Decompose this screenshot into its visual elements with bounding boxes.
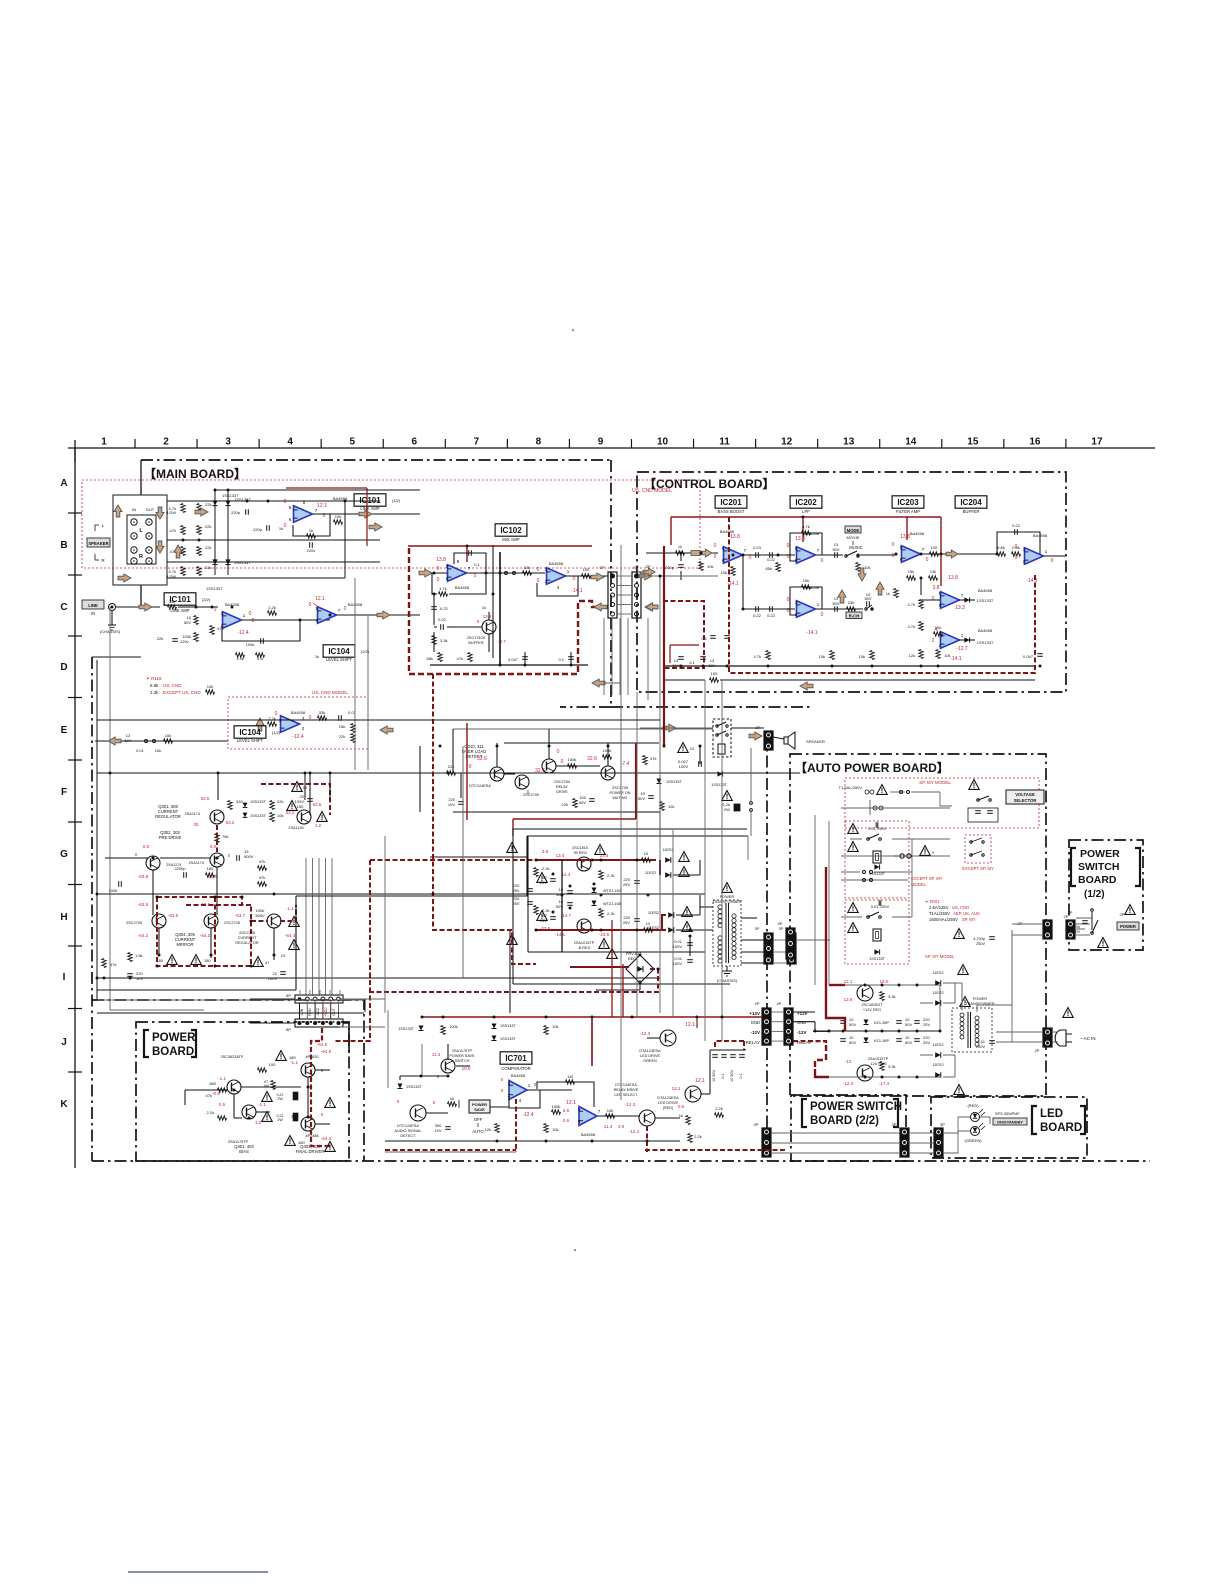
label bbox=[672, 658, 715, 668]
voltage bbox=[1015, 544, 1054, 584]
voltage bbox=[193, 796, 234, 827]
label LPF bbox=[802, 509, 810, 514]
wire bbox=[68, 697, 82, 699]
wire bbox=[178, 606, 218, 608]
resistor 23k bbox=[847, 600, 856, 611]
wire bbox=[527, 1089, 572, 1091]
red wire bbox=[906, 517, 908, 540]
US CND MODEL region 2 bbox=[228, 697, 368, 749]
signal bus bbox=[216, 825, 218, 852]
voltage bbox=[787, 597, 824, 636]
svg-text:13.0: 13.0 bbox=[556, 853, 565, 858]
svg-text:13.8: 13.8 bbox=[948, 575, 958, 581]
svg-text:RELAY DRIVE: RELAY DRIVE bbox=[614, 1088, 639, 1092]
svg-text:11ES2: 11ES2 bbox=[932, 991, 943, 995]
diode 1SS133T bbox=[869, 949, 886, 961]
voltage bbox=[255, 1102, 267, 1125]
wire bbox=[420, 572, 447, 574]
svg-text:E: E bbox=[61, 725, 68, 736]
CONTROL BOARD frame bbox=[637, 472, 1066, 692]
svg-text:BA4558: BA4558 bbox=[910, 531, 925, 536]
transistor audio detect bbox=[410, 1105, 426, 1121]
voltage bbox=[844, 979, 889, 1002]
wire bbox=[528, 835, 697, 837]
ferrite bbox=[691, 551, 700, 556]
svg-text:2.2k: 2.2k bbox=[150, 690, 159, 695]
svg-text:500V: 500V bbox=[255, 913, 265, 918]
svg-text:0: 0 bbox=[474, 573, 477, 579]
svg-text:2W: 2W bbox=[277, 1118, 283, 1122]
label 2SC3623ATP bbox=[221, 1055, 244, 1059]
voltage bbox=[714, 534, 752, 587]
label 2.2k bbox=[715, 1106, 724, 1117]
node F bbox=[61, 787, 67, 798]
label 2SC2764 bbox=[554, 780, 570, 794]
wire bbox=[943, 1131, 970, 1153]
svg-text:100V: 100V bbox=[673, 944, 683, 949]
transistor Q402 bbox=[242, 1105, 256, 1119]
connector 8P bbox=[295, 1019, 343, 1027]
label 8P bbox=[286, 993, 291, 1032]
resistor bbox=[256, 653, 265, 657]
svg-text:10: 10 bbox=[690, 746, 695, 751]
connector 5P bbox=[608, 572, 617, 618]
svg-text:3.8: 3.8 bbox=[933, 585, 940, 591]
bus bbox=[619, 618, 621, 695]
resistor 10k bbox=[164, 733, 173, 743]
wire bbox=[339, 998, 385, 1000]
signal bus bbox=[186, 904, 251, 906]
svg-text:R-CH: R-CH bbox=[849, 614, 859, 619]
wire bbox=[167, 500, 380, 502]
wire bbox=[943, 1117, 970, 1133]
svg-text:0: 0 bbox=[344, 606, 347, 612]
label bbox=[574, 941, 595, 950]
label caps2 bbox=[512, 896, 532, 906]
svg-text:6: 6 bbox=[412, 437, 418, 448]
wire bbox=[217, 773, 219, 800]
wire bbox=[273, 928, 275, 960]
wire bbox=[816, 554, 843, 556]
svg-text:2.2k: 2.2k bbox=[542, 908, 550, 913]
svg-text:2P: 2P bbox=[1068, 910, 1073, 915]
maroon bbox=[715, 1041, 744, 1050]
resistor 10k bbox=[523, 565, 532, 575]
svg-text:REGULATOR: REGULATOR bbox=[235, 941, 259, 945]
svg-text:2SA1175TP: 2SA1175TP bbox=[452, 1049, 473, 1053]
node D bbox=[60, 662, 67, 673]
svg-text:12.1: 12.1 bbox=[315, 596, 325, 602]
label Q310 bbox=[462, 744, 486, 759]
op-amp IC104a bbox=[318, 607, 337, 624]
svg-text:0: 0 bbox=[749, 555, 752, 561]
arrow bbox=[749, 732, 762, 740]
svg-text:D: D bbox=[60, 662, 67, 673]
svg-text:10: 10 bbox=[644, 851, 649, 856]
label BA4558 bbox=[978, 628, 993, 633]
feedback bbox=[509, 1090, 540, 1108]
svg-text:1SS133T: 1SS133T bbox=[666, 780, 683, 784]
svg-text:SELECTOR: SELECTOR bbox=[1014, 798, 1037, 803]
gray verticals bbox=[912, 839, 950, 917]
label bbox=[360, 498, 401, 511]
resistor 10k bbox=[819, 651, 835, 660]
resistor 12k bbox=[909, 650, 924, 659]
label BA4558 bbox=[1033, 533, 1048, 538]
svg-text:10: 10 bbox=[646, 921, 651, 926]
US CND MODEL label bbox=[312, 690, 348, 695]
label bbox=[170, 597, 211, 613]
svg-text:EXCEPT US, CND: EXCEPT US, CND bbox=[163, 690, 201, 695]
svg-text:10k: 10k bbox=[944, 653, 950, 658]
svg-text:-12.4: -12.4 bbox=[292, 734, 304, 740]
label 47k bbox=[206, 1093, 212, 1098]
cap 13 500V bbox=[237, 849, 254, 861]
wire bbox=[160, 857, 210, 859]
maroon long vertical bbox=[663, 546, 665, 746]
speaker terminal block bbox=[113, 495, 167, 585]
labels final bbox=[296, 1144, 325, 1154]
svg-text:12: 12 bbox=[781, 437, 793, 448]
svg-text:COMPARATOR: COMPARATOR bbox=[501, 1066, 530, 1071]
maroon bbox=[815, 1045, 826, 1069]
warn bbox=[191, 955, 212, 965]
svg-text:50V: 50V bbox=[638, 796, 645, 801]
svg-text:0.01, 250V: 0.01, 250V bbox=[868, 827, 887, 831]
svg-text:1SS133T: 1SS133T bbox=[406, 1085, 423, 1089]
label BA4558 bbox=[225, 602, 240, 607]
svg-text:R: R bbox=[139, 554, 143, 560]
diode 1SS133T bbox=[869, 864, 886, 876]
svg-text:100V: 100V bbox=[673, 961, 683, 966]
svg-text:-14.1: -14.1 bbox=[571, 588, 583, 594]
wire bbox=[313, 513, 420, 515]
warn bbox=[262, 1092, 298, 1102]
wire bbox=[690, 929, 713, 931]
EXCEPT SP MY region bbox=[965, 835, 991, 863]
svg-text:25V: 25V bbox=[923, 1040, 930, 1045]
resistor bbox=[170, 547, 186, 556]
wire bbox=[204, 1012, 268, 1014]
svg-text:15: 15 bbox=[967, 437, 979, 448]
svg-text:-12.4: -12.4 bbox=[237, 630, 249, 636]
wire bbox=[959, 639, 975, 641]
svg-text:12.1: 12.1 bbox=[566, 1100, 576, 1106]
label 12.1 line bbox=[313, 603, 318, 607]
wire bbox=[741, 939, 764, 941]
wire bbox=[68, 512, 82, 514]
svg-text:1k: 1k bbox=[482, 605, 486, 610]
warn bbox=[722, 883, 732, 893]
zener KZ1-36P bbox=[864, 1020, 890, 1026]
resistor bbox=[197, 545, 212, 556]
resistor 100 bbox=[582, 567, 591, 578]
label 100 bbox=[258, 1062, 277, 1072]
SP MY MODEL label 2 bbox=[925, 954, 955, 959]
svg-text:SP: SP bbox=[633, 565, 639, 570]
cap bbox=[724, 636, 730, 639]
resistor 12k bbox=[485, 1124, 500, 1133]
node 10 bbox=[657, 437, 669, 448]
label bbox=[639, 1049, 661, 1063]
wire bbox=[309, 773, 311, 815]
wire bbox=[980, 1117, 990, 1124]
label MOVIE bbox=[847, 535, 860, 540]
wire bbox=[339, 1026, 385, 1028]
cap 0.22 fb bbox=[997, 523, 1040, 556]
resistor bbox=[351, 724, 355, 733]
diode 11ES2 bbox=[932, 971, 943, 986]
resistor 33k bbox=[318, 710, 327, 720]
LED D801 bbox=[971, 1109, 986, 1122]
svg-text:US, CND: US, CND bbox=[163, 683, 182, 688]
cap 10 50V bbox=[864, 592, 871, 607]
AUTO POWER BOARD title bbox=[795, 760, 949, 775]
svg-text:65k: 65k bbox=[766, 566, 772, 571]
maroon feed bbox=[369, 860, 371, 992]
svg-text:2200p: 2200p bbox=[174, 866, 186, 871]
red wire bbox=[622, 964, 624, 1017]
resistor 3.3k bbox=[880, 1062, 896, 1071]
svg-text:-12.4: -12.4 bbox=[522, 1112, 534, 1118]
svg-text:0: 0 bbox=[527, 790, 530, 796]
svg-text:+VCC: +VCC bbox=[324, 1007, 328, 1017]
red wire bbox=[466, 546, 468, 562]
label 47 1W bbox=[263, 1080, 275, 1090]
svg-text:2.2k: 2.2k bbox=[715, 1106, 723, 1111]
red wire bbox=[670, 645, 699, 663]
svg-text:MUSIC: MUSIC bbox=[849, 545, 863, 550]
svg-text:✶ FE01: ✶ FE01 bbox=[925, 899, 940, 904]
svg-text:11ES2: 11ES2 bbox=[932, 971, 943, 975]
connector 8P bbox=[295, 995, 343, 1003]
label 47k bbox=[257, 656, 263, 661]
wire bbox=[430, 664, 588, 666]
resistor 1k bbox=[307, 528, 316, 538]
svg-text:8P: 8P bbox=[286, 1027, 291, 1032]
svg-text:-64.5: -64.5 bbox=[317, 1042, 328, 1047]
voltage bbox=[540, 849, 551, 931]
svg-text:330: 330 bbox=[236, 799, 243, 804]
wire bbox=[109, 607, 111, 1010]
svg-text:1SS133T: 1SS133T bbox=[234, 560, 251, 565]
svg-text:LINE: LINE bbox=[88, 603, 98, 608]
node 9 bbox=[598, 437, 604, 448]
svg-text:10k: 10k bbox=[819, 654, 825, 659]
svg-text:SP, MY MODEL: SP, MY MODEL bbox=[919, 780, 951, 785]
POWER BOARD frame bbox=[136, 1022, 349, 1161]
resistor bbox=[167, 567, 186, 580]
wire bbox=[385, 1140, 680, 1142]
wire bbox=[920, 578, 922, 595]
label 15k bbox=[339, 724, 345, 729]
wire bbox=[95, 740, 228, 742]
svg-text:BUFFER: BUFFER bbox=[963, 509, 980, 514]
svg-text:3.9: 3.9 bbox=[618, 1124, 625, 1129]
resistor 2.2k bbox=[599, 909, 615, 918]
svg-text:22k: 22k bbox=[205, 565, 211, 570]
bus bbox=[672, 830, 674, 1017]
wire bbox=[513, 828, 747, 830]
transistor Q303 bbox=[189, 853, 224, 867]
wire bbox=[116, 606, 160, 608]
svg-text:10V: 10V bbox=[448, 802, 455, 807]
speaker terminal inner bbox=[127, 515, 156, 564]
wire bbox=[453, 728, 713, 730]
warn bbox=[848, 842, 858, 852]
svg-text:2W: 2W bbox=[724, 807, 730, 812]
resistor bbox=[197, 524, 212, 535]
svg-text:~ AC IN: ~ AC IN bbox=[1080, 1036, 1096, 1041]
voltage bbox=[290, 1049, 332, 1073]
jack bbox=[109, 604, 116, 611]
cap 220 10V bbox=[127, 971, 143, 981]
label bbox=[281, 953, 286, 958]
wire bbox=[215, 489, 420, 491]
svg-text:100k: 100k bbox=[568, 757, 577, 762]
resistor 10k bbox=[544, 1024, 559, 1035]
POWER label bbox=[1117, 922, 1139, 930]
footer rule bbox=[128, 1571, 268, 1573]
svg-text:-64.4: -64.4 bbox=[285, 933, 296, 938]
maroon bbox=[826, 867, 845, 1031]
wire bbox=[655, 1117, 680, 1119]
warn bbox=[262, 1112, 298, 1123]
voltage bbox=[640, 1022, 695, 1036]
resistor bbox=[197, 565, 212, 576]
svg-text:180: 180 bbox=[289, 1055, 296, 1060]
voltage -12.4 bbox=[522, 1112, 534, 1118]
svg-text:0.22: 0.22 bbox=[438, 617, 447, 622]
svg-text:1M: 1M bbox=[567, 1074, 573, 1079]
svg-text:17: 17 bbox=[1091, 437, 1103, 448]
svg-text:12k: 12k bbox=[909, 653, 915, 658]
label L bbox=[139, 528, 143, 534]
wire bbox=[322, 1003, 324, 1019]
wire bbox=[354, 578, 356, 770]
cap 2200p bbox=[663, 553, 684, 580]
POWER SWITCH BOARD 2/2 frame bbox=[791, 1095, 906, 1161]
transistor Q404 bbox=[301, 1117, 315, 1131]
resistor 12k bbox=[660, 802, 675, 811]
bus bbox=[704, 680, 706, 1041]
svg-text:2.2k: 2.2k bbox=[607, 873, 615, 878]
svg-text:POWER: POWER bbox=[1120, 924, 1136, 929]
svg-text:GND: GND bbox=[751, 1020, 760, 1025]
connector 3P bbox=[764, 933, 773, 964]
svg-text:10: 10 bbox=[281, 953, 286, 958]
svg-text:IC102: IC102 bbox=[500, 526, 522, 535]
wire bbox=[771, 1132, 900, 1134]
svg-text:10k: 10k bbox=[207, 684, 213, 689]
svg-text:-14.1: -14.1 bbox=[950, 656, 962, 662]
arrow bbox=[195, 508, 208, 516]
bus bbox=[339, 990, 341, 994]
IC104 label bbox=[323, 645, 355, 657]
svg-text:BA4558: BA4558 bbox=[455, 585, 470, 590]
cap 0.047 bbox=[508, 652, 528, 665]
svg-text:3P: 3P bbox=[779, 926, 784, 931]
resistor 10k bbox=[859, 651, 875, 660]
wire bbox=[385, 1151, 516, 1153]
arrow bbox=[156, 541, 164, 553]
svg-text:10k: 10k bbox=[335, 514, 341, 519]
svg-text:10.0: 10.0 bbox=[462, 1066, 471, 1071]
svg-text:1SS133T: 1SS133T bbox=[500, 1037, 517, 1041]
diode bbox=[964, 637, 993, 645]
speaker terminal pin bbox=[131, 533, 152, 539]
maroon relay wire bbox=[793, 1041, 826, 1045]
resistor 47k bbox=[258, 875, 267, 886]
resistor 10 50V bbox=[184, 615, 198, 625]
wire bbox=[447, 1044, 449, 1060]
cap 47 25V bbox=[537, 873, 556, 886]
warn bbox=[253, 957, 270, 967]
switch S1 bbox=[1091, 909, 1098, 935]
bus bbox=[603, 618, 605, 695]
wire bbox=[731, 727, 764, 729]
svg-text:IC101: IC101 bbox=[359, 496, 381, 505]
voltage bbox=[138, 902, 179, 938]
wire bbox=[647, 1037, 660, 1039]
warn bbox=[599, 939, 609, 949]
svg-text:3P: 3P bbox=[778, 921, 783, 926]
wire bbox=[720, 679, 1035, 681]
svg-text:0.23: 0.23 bbox=[753, 545, 762, 550]
label BA4558 bbox=[978, 588, 993, 593]
wire bbox=[452, 729, 454, 773]
label bbox=[167, 510, 177, 515]
labels bias bbox=[234, 1144, 254, 1154]
op-amp IC701b bbox=[579, 1107, 597, 1126]
wire bbox=[909, 1152, 934, 1154]
gray verticals bbox=[939, 985, 941, 1031]
resistor 10k bbox=[721, 567, 736, 576]
svg-text:2P: 2P bbox=[1035, 1048, 1040, 1053]
label AC IN bbox=[1080, 1036, 1096, 1041]
svg-text:(CHASSIS): (CHASSIS) bbox=[717, 978, 738, 983]
warn bbox=[954, 929, 964, 939]
voltage bbox=[555, 913, 610, 937]
svg-text:BA4558: BA4558 bbox=[291, 710, 306, 715]
wire bbox=[504, 773, 515, 775]
speaker terminal pin bbox=[131, 519, 152, 525]
svg-text:MUTING: MUTING bbox=[613, 796, 628, 800]
IC203 label bbox=[892, 496, 924, 508]
bus bbox=[747, 836, 749, 860]
wire bbox=[959, 599, 975, 601]
MAIN BOARD frame bbox=[610, 460, 612, 707]
resistor 22k bbox=[447, 764, 456, 775]
svg-text:LINE AMP: LINE AMP bbox=[360, 506, 380, 511]
maroon wire bbox=[512, 819, 514, 836]
wire bbox=[140, 585, 142, 607]
voltage bbox=[436, 557, 476, 583]
svg-text:-17.4: -17.4 bbox=[879, 1081, 890, 1086]
svg-text:0: 0 bbox=[714, 554, 717, 560]
wire bbox=[617, 585, 632, 587]
resistor 2.2k bbox=[599, 871, 615, 880]
svg-text:15k: 15k bbox=[908, 569, 914, 574]
diode 11ES2 bbox=[932, 991, 943, 1006]
svg-text:IC202: IC202 bbox=[795, 498, 817, 507]
voltage bbox=[672, 1078, 705, 1109]
node 13 bbox=[843, 437, 855, 448]
svg-text:1.2: 1.2 bbox=[255, 1120, 262, 1125]
wire bbox=[869, 800, 871, 815]
svg-text:250V: 250V bbox=[976, 1045, 985, 1049]
svg-text:10 50V: 10 50V bbox=[712, 1070, 716, 1083]
